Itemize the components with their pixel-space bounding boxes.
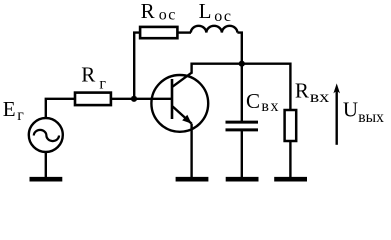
label U_вых [343,98,384,127]
wire rail corner down to R_вх [289,63,291,110]
wire capacitor to ground [241,130,243,177]
label R_г [81,63,106,93]
resistor R_г [75,93,111,106]
ground (emitter) [176,177,209,182]
transistor emitter arrow [182,115,191,124]
wire R_ос to L_ос [177,31,191,33]
wire source top to R_г [46,99,75,117]
wire R_г to base node [111,98,173,100]
voltage source E1 circle [29,118,63,152]
emitter wire to ground [190,124,192,177]
wire node B to capacitor [241,64,243,121]
capacitor C_вх top plate [226,121,259,124]
svg-text:вх: вх [310,89,330,106]
svg-text:вых: вых [358,109,384,126]
collector rail wire [192,63,291,65]
label R_вх [295,79,329,107]
svg-text:ос: ос [159,7,177,24]
transistor VT1 circle [151,75,208,132]
svg-text:С: С [246,89,260,113]
resistor R_вх [285,110,297,141]
svg-text:E: E [3,97,16,121]
svg-text:R: R [295,79,309,103]
node B (collector junction) [239,61,245,67]
svg-text:R: R [141,0,155,23]
svg-text:L: L [199,0,212,23]
label С_вх [246,89,280,115]
svg-text:вх: вх [261,98,280,115]
resistor R_ос [140,27,177,38]
ground (R_вх) [274,177,307,182]
svg-text:ос: ос [214,8,232,25]
label E_г [3,97,25,124]
svg-text:R: R [81,63,95,87]
ground (source) [30,177,63,182]
wire R_вх to ground [289,141,291,177]
transistor base bar [171,79,174,119]
inductor L_ос [191,26,238,33]
transistor collector diagonal [173,73,192,87]
label R_ос [141,0,177,24]
transistor collector riser [190,63,192,74]
wire L_ос to collector rail corner [237,33,241,64]
arrow U_вых [333,83,340,144]
svg-text:г: г [99,75,106,92]
transistor emitter diagonal [173,106,192,123]
node A (base junction) [131,96,137,102]
label L_ос [199,0,233,25]
ground (C_вх) [226,177,259,182]
svg-text:U: U [343,98,358,122]
wire feedback left leg [134,33,140,99]
wire source bottom to ground [45,153,47,178]
voltage source sine wave [34,130,59,141]
svg-text:г: г [17,107,24,124]
capacitor C_вх bottom plate [226,128,259,131]
